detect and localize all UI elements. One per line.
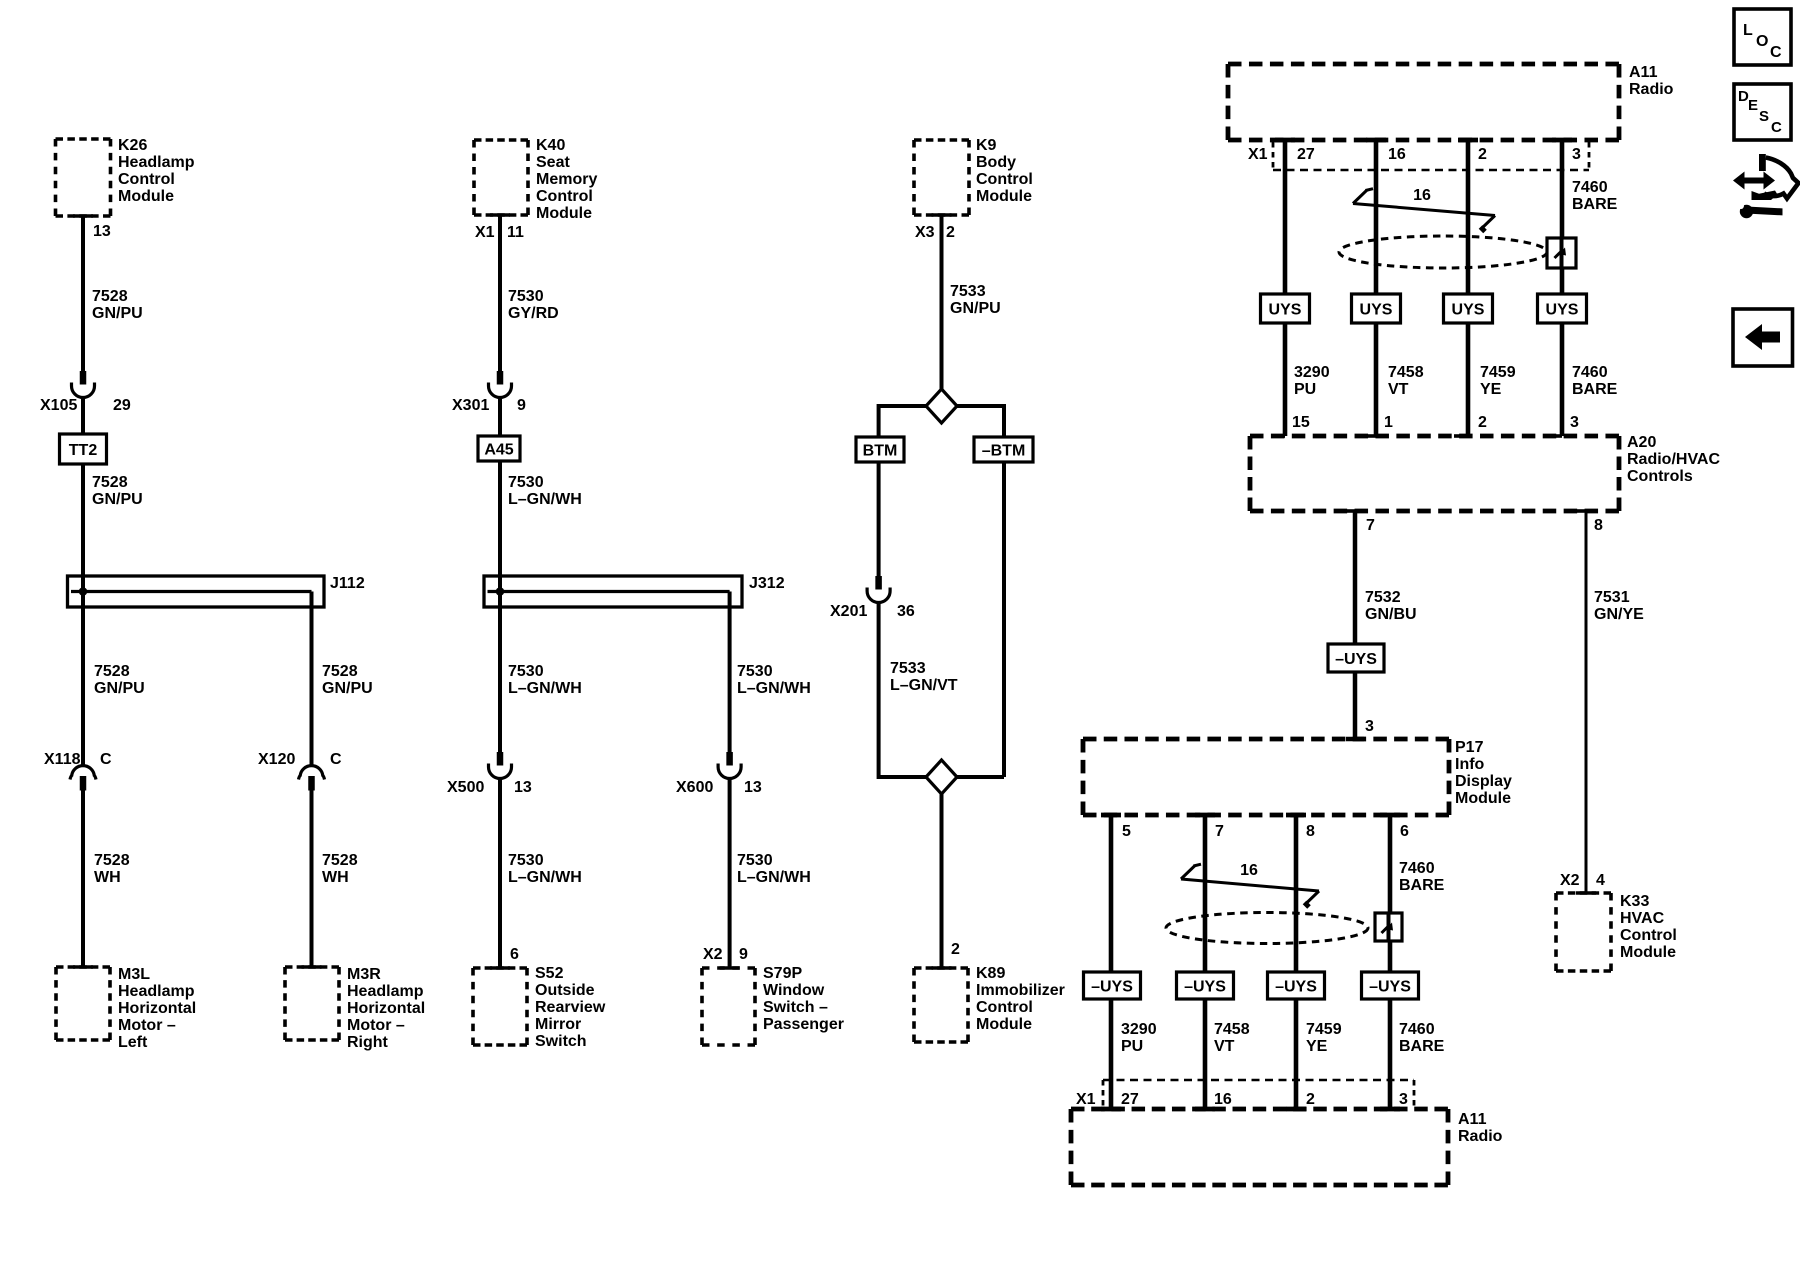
connector X1 strip (top) — [1248, 142, 1589, 170]
svg-text:X600: X600 — [676, 779, 713, 796]
svg-text:GN/BU: GN/BU — [1365, 606, 1417, 623]
connector X1 strip (bottom) — [1076, 1080, 1414, 1108]
wire 7459 YE from P17 pin 8 to A11 pin 2 — [1286, 815, 1306, 1109]
svg-text:GY/RD: GY/RD — [508, 305, 559, 322]
splice pack J312 — [484, 575, 785, 607]
svg-text:BARE: BARE — [1399, 877, 1445, 894]
svg-text:Memory: Memory — [536, 171, 597, 188]
wire label 7528 GN/PU (right branch) — [322, 663, 373, 697]
wire label 7528 WH (left) — [94, 852, 130, 886]
wire 7528 GN/PU from TT2 to J112 and X118 — [81, 464, 85, 765]
wire label 7533 GN/PU — [950, 283, 1001, 317]
label box -UYS (wire 7458 bottom) — [1177, 972, 1234, 999]
svg-text:Module: Module — [536, 205, 592, 222]
wire label 7530 L-GN/WH (right branch) — [737, 663, 811, 697]
svg-text:7531: 7531 — [1594, 589, 1630, 606]
svg-text:K33: K33 — [1620, 893, 1649, 910]
pin labels 27 16 2 3 (A11 X1 top) — [1297, 146, 1581, 163]
svg-text:13: 13 — [93, 223, 111, 240]
svg-text:X1: X1 — [1076, 1091, 1096, 1108]
svg-text:O: O — [1756, 33, 1768, 50]
svg-text:L–GN/WH: L–GN/WH — [508, 680, 582, 697]
svg-text:7530: 7530 — [508, 852, 544, 869]
wire label 7528 GN/PU (left branch) — [94, 663, 145, 697]
svg-text:16: 16 — [1388, 146, 1406, 163]
svg-text:7460: 7460 — [1399, 1021, 1435, 1038]
icon back arrow button — [1733, 309, 1793, 366]
module A20 Radio/HVAC Controls — [1250, 434, 1720, 511]
svg-text:Motor –: Motor – — [347, 1017, 405, 1034]
svg-text:GN/YE: GN/YE — [1594, 606, 1644, 623]
svg-text:A11: A11 — [1458, 1111, 1487, 1128]
wire label 7458 VT (bottom) — [1214, 1021, 1250, 1055]
svg-text:7460: 7460 — [1572, 364, 1608, 381]
svg-text:X201: X201 — [830, 603, 867, 620]
svg-text:BTM: BTM — [863, 443, 898, 460]
svg-text:6: 6 — [1400, 823, 1409, 840]
connector X301 pin 9 — [452, 371, 526, 414]
svg-text:Horizontal: Horizontal — [347, 1000, 425, 1017]
icon harness routing (double arrow, loop, wrench) — [1733, 154, 1799, 218]
svg-text:HVAC: HVAC — [1620, 910, 1665, 927]
svg-text:Right: Right — [347, 1034, 389, 1051]
wire from X301 to splice A45 — [498, 398, 502, 437]
svg-text:Control: Control — [536, 188, 593, 205]
wire 7532 GN/BU from A20 pin 7 to P17 pin 3 — [1341, 511, 1364, 739]
svg-text:M3L: M3L — [118, 966, 150, 983]
wire label 7460 BARE (below P17) — [1399, 860, 1445, 894]
svg-text:C: C — [100, 751, 112, 768]
svg-text:7: 7 — [1215, 823, 1224, 840]
svg-text:Controls: Controls — [1627, 468, 1693, 485]
module K26 Headlamp Control Module — [56, 137, 195, 216]
svg-text:2: 2 — [1306, 1091, 1315, 1108]
wire label 7528 WH (right) — [322, 852, 358, 886]
wire label 7530 L-GN/WH (to S52) — [508, 852, 582, 886]
svg-text:Mirror: Mirror — [535, 1016, 581, 1033]
svg-text:7459: 7459 — [1306, 1021, 1342, 1038]
svg-text:YE: YE — [1306, 1038, 1328, 1055]
wire label 7459 YE (bottom) — [1306, 1021, 1342, 1055]
wire label 3290 PU (bottom) — [1121, 1021, 1157, 1055]
module K9 Body Control Module — [914, 137, 1033, 215]
svg-text:UYS: UYS — [1546, 302, 1579, 319]
wire 7528 GN/PU right branch from J112 to X120 — [310, 592, 314, 765]
svg-text:8: 8 — [1306, 823, 1315, 840]
svg-text:S52: S52 — [535, 965, 564, 982]
svg-text:Module: Module — [1620, 944, 1676, 961]
svg-text:4: 4 — [1596, 872, 1605, 889]
svg-text:–UYS: –UYS — [1184, 979, 1226, 996]
wire label 7458 VT (top) — [1388, 364, 1424, 398]
svg-text:3: 3 — [1365, 718, 1374, 735]
svg-text:–UYS: –UYS — [1091, 979, 1133, 996]
svg-text:GN/PU: GN/PU — [92, 491, 143, 508]
svg-text:8: 8 — [1594, 517, 1603, 534]
twisted leads symbol 16 (bottom) — [1181, 862, 1319, 907]
svg-text:L–GN/WH: L–GN/WH — [737, 680, 811, 697]
svg-text:X3: X3 — [915, 224, 935, 241]
svg-text:UYS: UYS — [1360, 302, 1393, 319]
svg-text:L–GN/WH: L–GN/WH — [508, 491, 582, 508]
svg-text:X105: X105 — [40, 397, 77, 414]
svg-text:–UYS: –UYS — [1275, 979, 1317, 996]
svg-text:7532: 7532 — [1365, 589, 1401, 606]
icon DESC button — [1734, 84, 1791, 140]
junction dot in J112 — [79, 587, 88, 596]
label box BTM — [856, 437, 904, 462]
wire 3290 PU from P17 pin 5 to A11 pin 27 — [1101, 815, 1121, 1109]
svg-text:Control: Control — [976, 999, 1033, 1016]
svg-text:2: 2 — [1478, 414, 1487, 431]
svg-text:–BTM: –BTM — [982, 443, 1026, 460]
wire 7530 L-GN/WH from X600 to S79P — [728, 779, 732, 969]
wire label 7530 GY/RD — [508, 288, 559, 322]
wire 7530 L-GN/WH from A45 to J312 and X500 — [498, 461, 502, 752]
svg-text:VT: VT — [1388, 381, 1409, 398]
pin labels 27 16 2 3 (A11 X1 bottom) — [1121, 1091, 1408, 1108]
svg-text:X1: X1 — [475, 224, 495, 241]
connector X3 pin 2 label (K9) — [915, 224, 955, 241]
svg-text:M3R: M3R — [347, 966, 381, 983]
label box -UYS (wire 7459 bottom) — [1268, 972, 1325, 999]
svg-text:Passenger: Passenger — [763, 1016, 844, 1033]
svg-text:Window: Window — [763, 982, 825, 999]
connector X120 pin C — [258, 751, 342, 791]
svg-text:6: 6 — [510, 946, 519, 963]
svg-text:Module: Module — [118, 188, 174, 205]
splice diamond (bottom) — [926, 760, 957, 794]
wire label 7528 GN/PU (upper col1) — [92, 288, 143, 322]
svg-text:Module: Module — [1455, 790, 1511, 807]
svg-text:Seat: Seat — [536, 154, 570, 171]
svg-text:3290: 3290 — [1121, 1021, 1157, 1038]
label box UYS (wire 3290) — [1261, 294, 1310, 323]
twisted leads symbol 16 (top) — [1353, 187, 1495, 232]
svg-text:13: 13 — [744, 779, 762, 796]
splice TT2 — [60, 434, 107, 464]
module S79P Window Switch - Passenger — [702, 965, 844, 1045]
svg-text:29: 29 — [113, 397, 131, 414]
svg-text:A20: A20 — [1627, 434, 1656, 451]
svg-text:BARE: BARE — [1399, 1038, 1445, 1055]
wire splice branches (bottom) — [879, 775, 1004, 779]
svg-text:Headlamp: Headlamp — [347, 983, 424, 1000]
wire 7530 GY/RD from K40 to X301 — [498, 215, 502, 371]
wire 7458 VT from P17 pin 7 to A11 pin 16 — [1195, 815, 1215, 1109]
svg-text:GN/PU: GN/PU — [94, 680, 145, 697]
svg-text:15: 15 — [1292, 414, 1310, 431]
svg-text:Module: Module — [976, 1016, 1032, 1033]
wire label 7460 BARE (top) — [1572, 179, 1618, 213]
wire 7531 GN/YE from A20 pin 8 to K33 — [1572, 511, 1586, 893]
svg-text:3: 3 — [1572, 146, 1581, 163]
svg-text:GN/PU: GN/PU — [322, 680, 373, 697]
connector X118 pin C — [44, 751, 112, 791]
wire from bottom diamond to K89 — [940, 794, 944, 968]
pin 13 label (K26) — [93, 223, 111, 240]
svg-text:16: 16 — [1214, 1091, 1232, 1108]
svg-text:7460: 7460 — [1572, 179, 1608, 196]
label box -UYS (wire 3290 bottom) — [1084, 972, 1141, 999]
wire 7460 BARE from A11 pin 3 to A20 pin 3 — [1548, 140, 1572, 436]
svg-text:BARE: BARE — [1572, 381, 1618, 398]
svg-text:P17: P17 — [1455, 739, 1484, 756]
svg-text:Horizontal: Horizontal — [118, 1000, 196, 1017]
svg-text:K40: K40 — [536, 137, 565, 154]
svg-text:Left: Left — [118, 1034, 148, 1051]
module P17 Info Display Module — [1083, 739, 1512, 815]
wire 7530 L-GN/WH right branch from J312 to X600 — [728, 592, 732, 753]
svg-text:7533: 7533 — [890, 660, 926, 677]
svg-text:7458: 7458 — [1214, 1021, 1250, 1038]
splice A45 — [478, 436, 520, 461]
shield ellipse and drain (bottom) — [1166, 913, 1402, 944]
svg-text:7458: 7458 — [1388, 364, 1424, 381]
svg-text:L–GN/WH: L–GN/WH — [737, 869, 811, 886]
connector X105 pin 29 — [40, 371, 131, 414]
svg-text:Headlamp: Headlamp — [118, 154, 195, 171]
wire 7533 L-GN/VT from X201 down — [877, 603, 881, 780]
wire 7528 WH from X120 to M3R — [310, 791, 314, 968]
wire splice branches (top) — [879, 404, 1004, 777]
svg-text:L–GN/VT: L–GN/VT — [890, 677, 958, 694]
pin 6 label (S52) — [510, 946, 519, 963]
svg-text:A45: A45 — [484, 442, 513, 459]
svg-text:16: 16 — [1240, 862, 1258, 879]
svg-text:16: 16 — [1413, 187, 1431, 204]
splice pack J112 — [68, 575, 365, 607]
svg-text:7460: 7460 — [1399, 860, 1435, 877]
svg-text:L: L — [1743, 22, 1753, 39]
module K33 HVAC Control Module — [1556, 893, 1677, 971]
svg-text:S: S — [1759, 108, 1769, 125]
label box UYS (wire 7460) — [1538, 294, 1587, 323]
svg-text:7528: 7528 — [92, 474, 128, 491]
module K89 Immobilizer Control Module — [914, 965, 1065, 1042]
svg-text:A11: A11 — [1629, 64, 1658, 81]
svg-text:7530: 7530 — [508, 663, 544, 680]
svg-text:3: 3 — [1399, 1091, 1408, 1108]
svg-text:E: E — [1748, 97, 1758, 114]
wire label 7530 L-GN/WH (to S79P) — [737, 852, 811, 886]
svg-text:J312: J312 — [749, 575, 785, 592]
svg-text:X2: X2 — [1560, 872, 1580, 889]
module M3R Headlamp Horizontal Motor - Right — [285, 966, 425, 1051]
svg-text:7530: 7530 — [737, 852, 773, 869]
svg-text:UYS: UYS — [1269, 302, 1302, 319]
pin labels 15 1 2 3 (A20 top) — [1292, 414, 1579, 431]
svg-text:27: 27 — [1297, 146, 1315, 163]
svg-text:PU: PU — [1294, 381, 1316, 398]
svg-text:VT: VT — [1214, 1038, 1235, 1055]
svg-text:2: 2 — [951, 941, 960, 958]
svg-text:TT2: TT2 — [69, 442, 98, 459]
svg-text:7533: 7533 — [950, 283, 986, 300]
svg-text:5: 5 — [1122, 823, 1131, 840]
svg-text:Headlamp: Headlamp — [118, 983, 195, 1000]
module M3L Headlamp Horizontal Motor - Left — [56, 966, 196, 1051]
svg-text:GN/PU: GN/PU — [92, 305, 143, 322]
svg-text:7528: 7528 — [94, 663, 130, 680]
svg-text:Radio/HVAC: Radio/HVAC — [1627, 451, 1720, 468]
svg-text:PU: PU — [1121, 1038, 1143, 1055]
label box -UYS (wire 7460 bottom) — [1362, 972, 1419, 999]
wire label 7528 GN/PU (below TT2) — [92, 474, 143, 508]
wire 7533 GN/PU from K9 to splice diamond — [940, 215, 944, 390]
svg-text:–UYS: –UYS — [1335, 651, 1377, 668]
svg-text:X500: X500 — [447, 779, 484, 796]
svg-text:1: 1 — [1384, 414, 1393, 431]
connector X600 pin 13 — [676, 752, 762, 796]
wire label 7459 YE (top) — [1480, 364, 1516, 398]
svg-text:WH: WH — [322, 869, 349, 886]
svg-text:S79P: S79P — [763, 965, 802, 982]
wire 7528 WH from X118 to M3L — [81, 791, 85, 968]
svg-text:YE: YE — [1480, 381, 1502, 398]
svg-text:C: C — [1771, 119, 1782, 136]
svg-text:2: 2 — [946, 224, 955, 241]
pin labels 5 7 8 6 (P17 bottom) — [1122, 823, 1409, 840]
svg-text:K26: K26 — [118, 137, 147, 154]
svg-text:2: 2 — [1478, 146, 1487, 163]
svg-text:7530: 7530 — [508, 474, 544, 491]
module A11 Radio (top) — [1228, 64, 1674, 140]
svg-text:7528: 7528 — [92, 288, 128, 305]
svg-text:9: 9 — [517, 397, 526, 414]
splice diamond (top) — [926, 389, 957, 423]
pin 8 label (A20 bottom) — [1594, 517, 1603, 534]
svg-text:BARE: BARE — [1572, 196, 1618, 213]
svg-text:C: C — [330, 751, 342, 768]
wire 7458 VT from A11 pin 16 to A20 pin 1 — [1362, 140, 1386, 436]
svg-text:K9: K9 — [976, 137, 997, 154]
wire label 7533 L-GN/VT — [890, 660, 958, 694]
svg-text:X118: X118 — [44, 751, 81, 768]
svg-text:7459: 7459 — [1480, 364, 1516, 381]
svg-text:Outside: Outside — [535, 982, 595, 999]
wire from X105 to splice TT2 — [81, 398, 85, 435]
junction dot in J312 — [496, 587, 505, 596]
svg-text:7530: 7530 — [508, 288, 544, 305]
svg-text:Control: Control — [118, 171, 175, 188]
wire 7460 BARE from P17 pin 6 to A11 pin 3 — [1380, 815, 1400, 1109]
shield ellipse and drain (top) — [1339, 236, 1576, 268]
connector X2 pin 9 label (S79P) — [703, 946, 748, 963]
svg-text:13: 13 — [514, 779, 532, 796]
svg-text:C: C — [1770, 44, 1782, 61]
svg-text:7528: 7528 — [94, 852, 130, 869]
connector X1 pin 11 label (K40) — [475, 224, 524, 241]
pin 3 label (P17 top) — [1365, 718, 1374, 735]
module S52 Outside Rearview Mirror Switch — [473, 965, 606, 1050]
icon LOC button — [1734, 9, 1791, 65]
wire label 7530 L-GN/WH (below A45) — [508, 474, 582, 508]
svg-text:Body: Body — [976, 154, 1016, 171]
svg-text:UYS: UYS — [1452, 302, 1485, 319]
svg-text:7: 7 — [1366, 517, 1375, 534]
connector X500 pin 13 — [447, 752, 532, 796]
label box UYS (wire 7458) — [1352, 294, 1401, 323]
wire label 7460 BARE (bottom) — [1399, 1021, 1445, 1055]
svg-text:Switch –: Switch – — [763, 999, 828, 1016]
svg-text:3290: 3290 — [1294, 364, 1330, 381]
svg-text:7530: 7530 — [737, 663, 773, 680]
svg-text:27: 27 — [1121, 1091, 1139, 1108]
wire label 7530 L-GN/WH (left branch) — [508, 663, 582, 697]
svg-text:Radio: Radio — [1629, 81, 1674, 98]
svg-text:GN/PU: GN/PU — [950, 300, 1001, 317]
connector X201 pin 36 — [830, 576, 915, 620]
svg-text:7528: 7528 — [322, 663, 358, 680]
svg-text:Control: Control — [1620, 927, 1677, 944]
wire 7530 L-GN/WH from X500 to S52 — [498, 779, 502, 969]
svg-text:X1: X1 — [1248, 146, 1268, 163]
wire 7459 YE from A11 pin 2 to A20 pin 2 — [1454, 140, 1478, 436]
wire label 7460 BARE (above A20) — [1572, 364, 1618, 398]
svg-text:36: 36 — [897, 603, 915, 620]
svg-text:7528: 7528 — [322, 852, 358, 869]
label box UYS (wire 7459) — [1444, 294, 1493, 323]
svg-text:Rearview: Rearview — [535, 999, 606, 1016]
svg-text:X120: X120 — [258, 751, 295, 768]
svg-text:3: 3 — [1570, 414, 1579, 431]
wire label 7531 GN/YE — [1594, 589, 1644, 623]
pin 7 label (A20 bottom) — [1366, 517, 1375, 534]
svg-text:X301: X301 — [452, 397, 489, 414]
svg-text:Display: Display — [1455, 773, 1512, 790]
svg-text:K89: K89 — [976, 965, 1005, 982]
connector X2 pin 4 label (K33) — [1560, 872, 1605, 889]
module K40 Seat Memory Control Module — [474, 137, 597, 222]
svg-text:J112: J112 — [330, 575, 365, 592]
svg-text:WH: WH — [94, 869, 121, 886]
svg-text:11: 11 — [507, 224, 524, 241]
wire 3290 PU from A11 pin 27 to A20 pin 15 — [1271, 140, 1295, 436]
svg-text:Info: Info — [1455, 756, 1485, 773]
svg-text:–UYS: –UYS — [1369, 979, 1411, 996]
svg-text:9: 9 — [739, 946, 748, 963]
svg-text:Immobilizer: Immobilizer — [976, 982, 1065, 999]
label box -UYS (wire 7532) — [1328, 644, 1384, 672]
label box -BTM — [974, 437, 1033, 462]
svg-text:Module: Module — [976, 188, 1032, 205]
wire 7528 GN/PU from K26 pin 13 to X105 — [81, 215, 85, 371]
svg-text:Switch: Switch — [535, 1033, 587, 1050]
module A11 Radio (bottom) — [1071, 1109, 1503, 1185]
wire label 3290 PU (top) — [1294, 364, 1330, 398]
svg-text:X2: X2 — [703, 946, 723, 963]
svg-text:Radio: Radio — [1458, 1128, 1503, 1145]
pin 2 label (K89) — [951, 941, 960, 958]
svg-text:Control: Control — [976, 171, 1033, 188]
wire label 7532 GN/BU — [1365, 589, 1417, 623]
svg-text:Motor –: Motor – — [118, 1017, 176, 1034]
svg-text:L–GN/WH: L–GN/WH — [508, 869, 582, 886]
